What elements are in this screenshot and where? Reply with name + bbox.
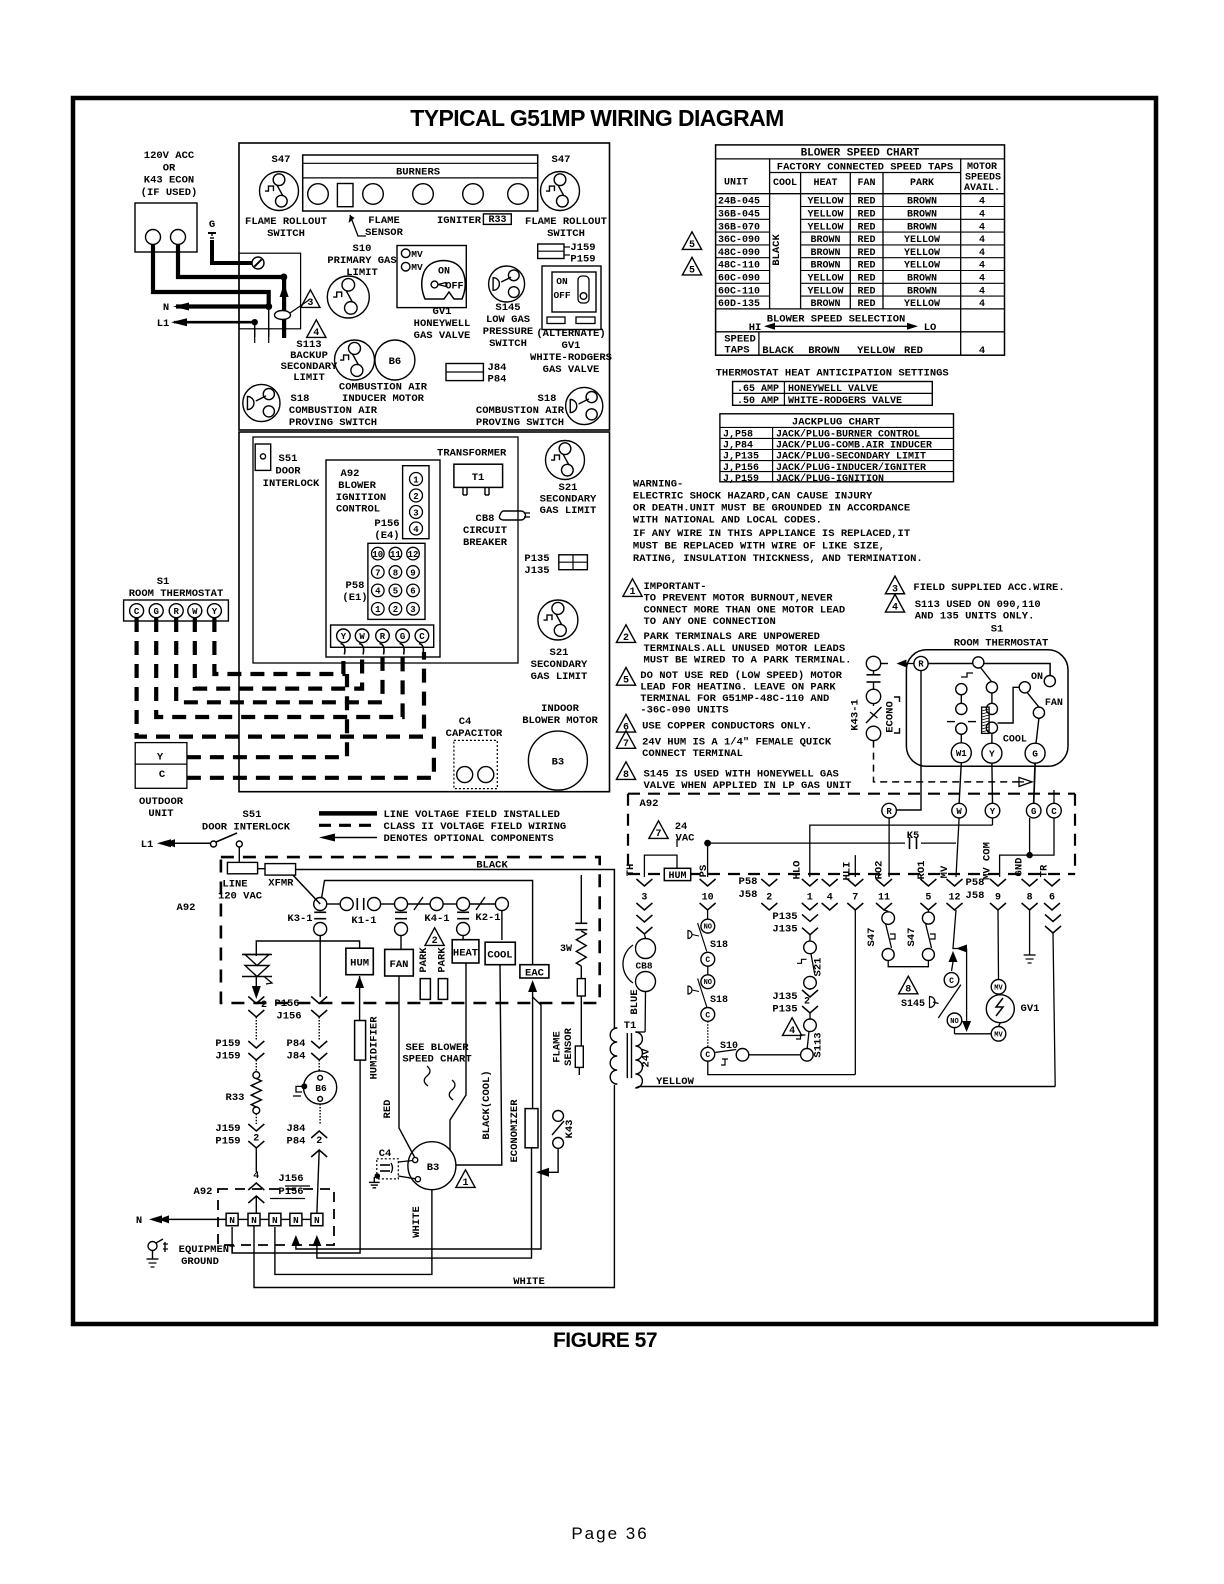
svg-text:LOW GAS: LOW GAS [486, 314, 530, 326]
svg-text:PARK: PARK [418, 947, 430, 973]
svg-text:HLI: HLI [841, 862, 853, 881]
svg-text:PARK: PARK [437, 947, 449, 973]
B6 ground flag [301, 1083, 307, 1089]
ON contact circle [1044, 676, 1055, 687]
svg-text:2: 2 [766, 893, 772, 904]
svg-text:GAS VALVE: GAS VALVE [414, 330, 471, 342]
gas valve GV1 right [991, 980, 1006, 995]
svg-text:BLOWER: BLOWER [338, 480, 377, 492]
svg-text:MOTOR: MOTOR [967, 162, 997, 173]
svg-text:MV: MV [411, 262, 423, 273]
svg-text:UNIT: UNIT [724, 178, 748, 189]
note triangle 4 right [885, 594, 904, 612]
svg-text:BLACK(COOL): BLACK(COOL) [481, 1070, 493, 1139]
svg-text:(E4): (E4) [374, 530, 399, 542]
svg-text:ECONO: ECONO [885, 701, 897, 733]
HEAT box [452, 940, 479, 963]
svg-text:FIELD SUPPLIED ACC.WIRE.: FIELD SUPPLIED ACC.WIRE. [913, 582, 1064, 594]
svg-text:C: C [1051, 807, 1057, 817]
svg-text:J84: J84 [488, 362, 507, 374]
burners box [303, 155, 538, 211]
black bus wire [296, 870, 615, 1029]
svg-text:LINE: LINE [222, 879, 247, 891]
note triangle 3 [301, 290, 320, 308]
svg-text:MV: MV [939, 865, 951, 878]
svg-text:4: 4 [827, 893, 833, 904]
svg-text:BREAKER: BREAKER [463, 537, 508, 549]
svg-text:N: N [163, 302, 169, 314]
svg-text:J156: J156 [278, 1173, 303, 1185]
svg-text:C: C [705, 956, 710, 965]
svg-text:C4: C4 [379, 1148, 392, 1160]
svg-text:2: 2 [804, 997, 810, 1008]
svg-text:6: 6 [1049, 893, 1055, 904]
svg-text:GROUND: GROUND [181, 1256, 219, 1268]
note triangle 7 [616, 731, 635, 749]
svg-text:RATING, INSULATION THICKNESS,: RATING, INSULATION THICKNESS, AND TERMIN… [633, 553, 923, 565]
svg-text:4: 4 [253, 1171, 259, 1182]
svg-text:S47: S47 [906, 928, 918, 947]
neutral terminal blocks N [226, 1213, 238, 1225]
svg-text:MV: MV [411, 249, 423, 260]
border frame [73, 98, 1156, 1324]
svg-text:C: C [134, 607, 140, 617]
svg-text:K43: K43 [564, 1120, 576, 1139]
legend arrow line [322, 837, 377, 839]
svg-text:7: 7 [655, 829, 661, 840]
resistor 3W branch [580, 875, 582, 923]
svg-text:A92: A92 [177, 902, 196, 914]
svg-text:CONNECT MORE THAN ONE MOTOR LE: CONNECT MORE THAN ONE MOTOR LEAD [644, 604, 846, 616]
connector P58 E1 [368, 543, 425, 619]
XFMR box [265, 864, 296, 876]
svg-text:BLOWER MOTOR: BLOWER MOTOR [522, 715, 598, 727]
svg-text:OUTDOOR: OUTDOOR [139, 796, 184, 808]
svg-text:4: 4 [789, 1026, 795, 1037]
thin wire below N junction [268, 307, 270, 338]
svg-text:S21: S21 [550, 647, 569, 659]
svg-text:TH: TH [625, 864, 637, 877]
svg-text:Page 36: Page 36 [571, 1524, 648, 1543]
oval junction marker [275, 311, 291, 320]
svg-text:S18: S18 [710, 995, 728, 1006]
junction dot L1 [252, 319, 258, 325]
svg-text:HONEYWELL: HONEYWELL [414, 318, 471, 330]
svg-text:3: 3 [413, 509, 418, 519]
svg-text:BROWN: BROWN [808, 345, 840, 357]
svg-text:CIRCUIT: CIRCUIT [463, 525, 507, 537]
svg-text:JACK/PLUG-IGNITION: JACK/PLUG-IGNITION [776, 473, 884, 485]
svg-text:WARNING-: WARNING- [633, 479, 683, 491]
wire LINE to XFMR [258, 868, 265, 870]
thermostat terminal box S1 [124, 600, 229, 621]
svg-text:5: 5 [689, 240, 695, 251]
wire S145 NO to MV [954, 1028, 956, 1034]
svg-text:G: G [153, 607, 158, 617]
svg-text:J58: J58 [739, 889, 758, 901]
svg-text:5: 5 [925, 893, 931, 904]
N2 wire to WHITE bus [254, 1085, 614, 1288]
svg-text:VALVE WHEN APPLIED IN LP GAS U: VALVE WHEN APPLIED IN LP GAS UNIT [644, 780, 852, 792]
wire K43 to economizer [544, 1148, 558, 1172]
svg-text:NO: NO [950, 1018, 958, 1026]
svg-text:GND: GND [1014, 858, 1026, 877]
svg-text:BLACK: BLACK [762, 345, 794, 357]
fan switch arm [1027, 692, 1039, 707]
svg-text:K43-1: K43-1 [850, 699, 862, 731]
field wire outdoor Y [187, 674, 347, 757]
svg-text:TO PREVENT MOTOR BURNOUT,NEVER: TO PREVENT MOTOR BURNOUT,NEVER [644, 593, 834, 605]
svg-text:JACKPLUG CHART: JACKPLUG CHART [792, 417, 880, 429]
svg-text:.50 AMP: .50 AMP [737, 396, 779, 407]
K43 contact [553, 1111, 564, 1122]
HUM box [346, 948, 373, 975]
triac igniter control [242, 954, 272, 956]
terminal circle left [146, 230, 161, 245]
svg-text:(E1): (E1) [342, 592, 367, 604]
svg-text:W: W [956, 807, 962, 817]
svg-text:24V: 24V [641, 1048, 653, 1068]
svg-text:4: 4 [313, 328, 319, 339]
svg-text:(ALTERNATE): (ALTERNATE) [536, 328, 605, 340]
svg-text:PRIMARY GAS: PRIMARY GAS [327, 255, 396, 267]
thermostat Y terminal [982, 743, 1002, 763]
pressure switch S18 left [243, 384, 280, 421]
svg-text:MV: MV [994, 984, 1003, 992]
field wire G [156, 618, 402, 717]
blower motor B3 [528, 731, 587, 790]
wire COOL to B3 [457, 965, 502, 1165]
svg-text:EAC: EAC [525, 968, 545, 980]
svg-text:8: 8 [623, 770, 629, 781]
svg-text:SECONDARY: SECONDARY [531, 659, 588, 671]
TH HUM wires [644, 855, 677, 877]
svg-text:ECONOMIZER: ECONOMIZER [509, 1099, 521, 1163]
svg-text:INDUCER MOTOR: INDUCER MOTOR [342, 393, 425, 405]
thin wires below sub-box [254, 329, 256, 343]
connector J84 P84 [446, 364, 483, 381]
svg-text:ON: ON [556, 276, 568, 287]
svg-text:8: 8 [1027, 893, 1033, 904]
sub-box line voltage entry [239, 253, 301, 329]
svg-text:TYPICAL G51MP WIRING DIAGRAM: TYPICAL G51MP WIRING DIAGRAM [410, 105, 783, 131]
wire to ON [984, 664, 1050, 676]
wire to HUM [320, 941, 359, 948]
svg-text:RO1: RO1 [916, 861, 928, 880]
svg-text:MV: MV [994, 1031, 1003, 1039]
note triangle 2 [616, 625, 635, 643]
fan switch elbow wire [998, 687, 1020, 723]
burner circles [308, 184, 329, 205]
svg-text:OFF: OFF [445, 282, 463, 293]
svg-text:DO NOT USE RED (LOW SPEED) MOT: DO NOT USE RED (LOW SPEED) MOTOR [640, 670, 842, 682]
svg-text:RED: RED [382, 1100, 394, 1119]
note triangle 4 [307, 320, 326, 338]
svg-text:P84: P84 [287, 1038, 306, 1050]
HLI stub [854, 855, 856, 877]
svg-text:LIMIT: LIMIT [293, 372, 325, 384]
svg-text:2: 2 [261, 1000, 267, 1011]
wire from right terminal to junction [178, 244, 284, 277]
svg-text:Y: Y [157, 752, 164, 764]
svg-text:ELECTRIC SHOCK HAZARD,CAN CAUS: ELECTRIC SHOCK HAZARD,CAN CAUSE INJURY [633, 491, 873, 503]
outdoor unit box [135, 743, 187, 789]
field wire Y [214, 618, 343, 674]
HUMIDIFIER branch [355, 976, 364, 988]
svg-text:J135: J135 [772, 924, 797, 936]
svg-text:GV1: GV1 [1021, 1003, 1040, 1015]
svg-text:12: 12 [408, 550, 419, 560]
field wire R [176, 618, 382, 702]
svg-text:ROOM THERMOSTAT: ROOM THERMOSTAT [954, 638, 1049, 650]
svg-text:ON: ON [438, 267, 450, 278]
cool contact chain [986, 682, 997, 693]
arrow from thermostat R to K43-1 [905, 663, 914, 665]
svg-text:-36C-090 UNITS: -36C-090 UNITS [640, 704, 728, 716]
legend dashed line [319, 824, 377, 827]
svg-text:1: 1 [629, 587, 635, 598]
svg-text:HUMIDIFIER: HUMIDIFIER [369, 1016, 381, 1080]
svg-text:NO: NO [704, 924, 712, 932]
svg-text:G: G [209, 219, 215, 231]
svg-text:6: 6 [410, 587, 415, 597]
leader line to note 3 [290, 300, 309, 313]
field wire outdoor C [187, 737, 434, 778]
inner enclosure box [253, 437, 518, 663]
svg-text:THERMOSTAT HEAT ANTICIPATION S: THERMOSTAT HEAT ANTICIPATION SETTINGS [716, 368, 949, 380]
svg-text:A92: A92 [341, 468, 360, 480]
svg-text:P156: P156 [374, 518, 399, 530]
note triangle 6 [616, 714, 635, 732]
svg-text:W1: W1 [956, 749, 967, 759]
inducer motor B6 lower [304, 1071, 337, 1104]
svg-text:5: 5 [623, 676, 629, 687]
wire K4-1 to FAN [400, 936, 402, 950]
svg-text:J159: J159 [570, 242, 595, 254]
S145 C contact [944, 973, 959, 988]
svg-text:J84: J84 [287, 1051, 306, 1063]
CB8 circuit breaker pill [499, 511, 525, 520]
note triangle 1 lower [456, 1170, 475, 1188]
room thermostat rounded box [906, 650, 1068, 767]
svg-text:S47: S47 [552, 154, 571, 166]
svg-text:P135: P135 [524, 553, 549, 565]
svg-text:WHITE-RODGERS VALVE: WHITE-RODGERS VALVE [788, 396, 902, 407]
svg-text:J156: J156 [276, 1011, 301, 1023]
svg-text:C: C [705, 1011, 710, 1020]
svg-text:J159: J159 [215, 1123, 240, 1135]
terminal Y [985, 803, 1000, 818]
svg-text:S10: S10 [353, 243, 372, 255]
svg-text:K3-1: K3-1 [287, 913, 312, 925]
A92 24V dashed box [628, 793, 1075, 795]
MV terminal circles [401, 249, 410, 258]
svg-text:W: W [192, 607, 198, 617]
svg-text:G: G [1031, 807, 1036, 817]
svg-text:COOL: COOL [773, 178, 797, 189]
svg-text:TR: TR [1039, 864, 1051, 877]
svg-text:P135: P135 [772, 1004, 797, 1016]
svg-text:C: C [419, 632, 425, 642]
wire from left terminal to N [153, 244, 269, 307]
svg-text:WHITE: WHITE [411, 1206, 423, 1238]
plug J159 P159 lower [248, 1124, 264, 1131]
svg-text:LIMIT: LIMIT [346, 267, 378, 279]
svg-text:4: 4 [892, 603, 898, 614]
pressure switch S18 right [566, 387, 603, 424]
svg-text:IGNITER: IGNITER [437, 215, 482, 227]
wire EAC to N4 [296, 997, 541, 1249]
svg-text:P156: P156 [274, 998, 299, 1010]
connector P135 J135 grid [559, 555, 588, 570]
svg-text:A92: A92 [194, 1186, 213, 1198]
svg-text:WHITE-RODGERS: WHITE-RODGERS [530, 352, 612, 364]
thermostat R terminal [914, 656, 928, 670]
svg-text:T1: T1 [472, 472, 485, 484]
svg-text:RED: RED [904, 345, 923, 357]
svg-text:DOOR INTERLOCK: DOOR INTERLOCK [202, 822, 291, 834]
svg-text:TRANSFORMER: TRANSFORMER [437, 448, 507, 460]
svg-text:HUM: HUM [668, 871, 686, 882]
FAN box [385, 949, 414, 976]
svg-text:4: 4 [413, 525, 419, 535]
control compartment box [239, 432, 610, 792]
blower motor B3 lower [408, 1142, 456, 1190]
svg-text:PARK TERMINALS ARE UNPOWERED: PARK TERMINALS ARE UNPOWERED [644, 631, 820, 643]
svg-text:11: 11 [390, 550, 401, 560]
connector P156 E4 [403, 466, 429, 539]
plug P159 J159 [248, 1041, 264, 1048]
svg-text:COOL: COOL [1003, 735, 1027, 746]
note triangle 5 chart row 36C-090 [682, 232, 701, 250]
svg-text:COOL: COOL [487, 950, 512, 962]
svg-text:3: 3 [641, 893, 647, 904]
svg-text:K4-1: K4-1 [424, 913, 449, 925]
wire T1 secondary top to BLUE [635, 1031, 645, 1033]
thermostat top wire [928, 663, 973, 665]
note triangle 1 [623, 579, 642, 597]
thermostat terminal strip [331, 625, 434, 647]
HUM box right [664, 868, 690, 880]
svg-text:S145 IS USED WITH HONEYWELL GA: S145 IS USED WITH HONEYWELL GAS [644, 768, 839, 780]
burner compartment box [239, 143, 610, 430]
svg-text:S113 USED ON 090,110: S113 USED ON 090,110 [915, 599, 1041, 611]
wire triac to P156 [255, 977, 257, 997]
svg-text:SEE BLOWER: SEE BLOWER [405, 1042, 469, 1054]
svg-text:J159: J159 [215, 1051, 240, 1063]
MV gas valve wiring elbow [953, 910, 967, 949]
svg-text:24: 24 [675, 821, 688, 833]
svg-text:OR: OR [163, 162, 176, 174]
svg-text:FLAME: FLAME [368, 215, 400, 227]
resistor R33 igniter [253, 1072, 260, 1079]
svg-text:Y: Y [989, 749, 995, 760]
svg-text:A92: A92 [640, 798, 659, 810]
svg-text:(IF USED): (IF USED) [141, 187, 198, 199]
wire to N [255, 1148, 257, 1172]
svg-text:4: 4 [375, 587, 381, 597]
S21 switch right column [802, 914, 818, 921]
svg-text:PRESSURE: PRESSURE [483, 326, 533, 338]
svg-text:3: 3 [307, 298, 313, 309]
svg-text:8: 8 [905, 984, 911, 995]
svg-text:8: 8 [393, 568, 398, 578]
svg-text:CLASS II VOLTAGE FIELD WIRING: CLASS II VOLTAGE FIELD WIRING [384, 821, 567, 833]
field wire W [195, 618, 362, 689]
svg-text:7: 7 [375, 568, 380, 578]
svg-text:2: 2 [393, 605, 398, 615]
svg-text:PS: PS [698, 865, 710, 878]
heat anticipator hatched [982, 707, 990, 733]
transformer T1 box [454, 464, 503, 487]
PS junction dot [704, 840, 711, 847]
svg-text:S145: S145 [901, 999, 925, 1010]
N arrow wire [176, 304, 269, 308]
svg-text:BLUE: BLUE [629, 989, 641, 1014]
fan switch contact [1019, 682, 1030, 693]
svg-text:P84: P84 [488, 374, 507, 386]
wire FAN to B3 [399, 976, 415, 1157]
svg-text:3W: 3W [560, 944, 572, 955]
svg-text:S51: S51 [243, 809, 262, 821]
svg-text:GAS LIMIT: GAS LIMIT [540, 505, 597, 517]
fan selector arm [981, 668, 992, 683]
svg-text:R33: R33 [226, 1092, 245, 1104]
svg-text:3: 3 [410, 605, 415, 615]
svg-text:9: 9 [410, 568, 415, 578]
limit switch S21 lower [538, 600, 578, 640]
svg-text:WITH NATIONAL AND LOCAL CODES.: WITH NATIONAL AND LOCAL CODES. [633, 514, 822, 526]
svg-text:S18: S18 [538, 393, 557, 405]
svg-text:4: 4 [979, 345, 985, 357]
note triangle 4 lower right [783, 1018, 802, 1036]
svg-text:R: R [173, 607, 179, 617]
limit switch S10 [327, 276, 369, 318]
svg-text:120V ACC: 120V ACC [144, 150, 195, 162]
note triangle 8 [616, 762, 635, 780]
svg-text:S21: S21 [559, 482, 578, 494]
svg-text:BLOWER SPEED SELECTION: BLOWER SPEED SELECTION [767, 314, 906, 326]
svg-text:CONTROL: CONTROL [336, 504, 380, 516]
S145 switch arm [938, 985, 961, 1018]
svg-text:B6: B6 [389, 356, 402, 368]
svg-text:K2-1: K2-1 [475, 912, 500, 924]
svg-text:GAS VALVE: GAS VALVE [543, 364, 600, 376]
svg-text:P58: P58 [739, 876, 758, 888]
svg-text:S113: S113 [813, 1032, 825, 1057]
svg-text:YELLOW: YELLOW [656, 1076, 695, 1088]
K43-1 economizer relay [866, 656, 880, 670]
svg-text:P159: P159 [215, 1136, 240, 1148]
svg-text:J84: J84 [287, 1123, 306, 1135]
svg-text:9: 9 [995, 893, 1001, 904]
plug P84 J84 [311, 1041, 327, 1048]
C G MV COM wires [1000, 818, 1054, 877]
svg-text:IF ANY WIRE IN THIS APPLIANCE: IF ANY WIRE IN THIS APPLIANCE IS REPLACE… [633, 528, 910, 540]
svg-text:SWITCH: SWITCH [267, 228, 305, 240]
svg-text:SPEEDS: SPEEDS [965, 173, 1001, 184]
svg-text:TERMINALS.ALL UNUSED MOTOR LEA: TERMINALS.ALL UNUSED MOTOR LEADS [644, 643, 846, 655]
svg-text:FAN: FAN [390, 959, 409, 971]
svg-text:P58: P58 [966, 877, 985, 889]
thick wire S113 backup with up arrow [282, 277, 286, 338]
svg-text:PROVING SWITCH: PROVING SWITCH [476, 417, 564, 429]
svg-text:TAPS: TAPS [724, 345, 749, 357]
svg-text:J58: J58 [966, 890, 985, 902]
accessory terminal box [135, 203, 197, 252]
svg-text:B6: B6 [315, 1083, 327, 1094]
svg-text:7: 7 [852, 893, 858, 904]
